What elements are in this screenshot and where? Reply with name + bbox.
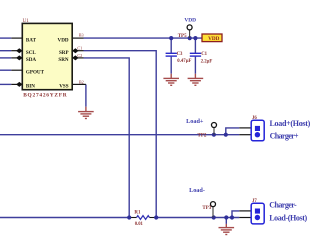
svg-text:VDD: VDD <box>184 18 196 24</box>
svg-text:Charger-: Charger- <box>269 200 297 209</box>
svg-text:C1: C1 <box>201 52 207 57</box>
svg-text:0.01: 0.01 <box>135 222 144 227</box>
svg-text:BAT: BAT <box>26 37 37 43</box>
svg-text:Charger+: Charger+ <box>270 131 299 140</box>
svg-text:SRN: SRN <box>58 57 69 63</box>
svg-text:J6: J6 <box>252 116 257 121</box>
svg-text:B3: B3 <box>79 32 84 37</box>
svg-text:VDD: VDD <box>208 36 219 42</box>
svg-text:2.2µF: 2.2µF <box>201 60 213 65</box>
svg-text:VSS: VSS <box>59 84 69 90</box>
svg-text:TP5: TP5 <box>178 34 187 39</box>
svg-text:BQ27426YZFR: BQ27426YZFR <box>23 93 67 99</box>
svg-text:Load-: Load- <box>189 187 205 194</box>
svg-text:SRP: SRP <box>59 50 69 56</box>
svg-text:VDD: VDD <box>58 37 69 43</box>
svg-text:C1: C1 <box>77 45 82 50</box>
svg-text:0.47µF: 0.47µF <box>177 59 191 64</box>
svg-text:SCL: SCL <box>26 50 37 56</box>
svg-text:TP2: TP2 <box>198 133 207 138</box>
svg-text:Load-(Host): Load-(Host) <box>269 214 307 223</box>
svg-text:U1: U1 <box>23 19 30 24</box>
svg-text:SDA: SDA <box>26 57 37 63</box>
svg-text:J7: J7 <box>252 199 257 204</box>
svg-text:GPOUT: GPOUT <box>26 69 45 75</box>
svg-text:TP3: TP3 <box>202 206 211 211</box>
svg-text:Load+: Load+ <box>186 118 204 125</box>
svg-text:B2: B2 <box>79 80 84 85</box>
svg-text:R1: R1 <box>134 211 141 216</box>
svg-text:Load+(Host): Load+(Host) <box>270 119 311 128</box>
svg-text:C3: C3 <box>177 52 183 57</box>
svg-text:BIN: BIN <box>26 84 35 90</box>
svg-text:C2: C2 <box>77 53 82 58</box>
